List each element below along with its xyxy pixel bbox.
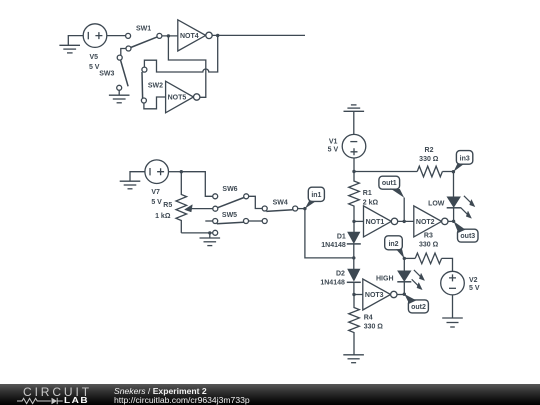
node junction V7/R5 <box>180 170 183 173</box>
svg-text:2 kΩ: 2 kΩ <box>363 199 379 206</box>
node junction R1/D1/NOT1 <box>352 220 355 223</box>
svg-text:SW5: SW5 <box>222 212 237 219</box>
voltage source V5 <box>83 24 107 48</box>
wire NOT4 output down to SW2 (with hop) <box>144 36 217 73</box>
resistor R1 <box>349 172 379 222</box>
resistor R4 <box>349 295 384 355</box>
svg-text:D2: D2 <box>336 270 345 277</box>
wire V1 to R1/R2 node <box>353 158 355 172</box>
svg-text:1N4148: 1N4148 <box>321 242 346 249</box>
LED D_LOW <box>428 197 461 221</box>
wire SW4 common to node in1 <box>298 208 305 210</box>
label V5 value <box>89 54 100 71</box>
ground GND_V1 (inverted, above V1) <box>344 105 365 134</box>
flag in3 <box>454 151 473 172</box>
wire R5 bottom to ground node <box>181 232 212 234</box>
wire SW6 common to SW4 upper throw <box>249 196 263 208</box>
wire V5 to SW1 <box>107 35 126 37</box>
svg-text:V1: V1 <box>329 139 338 146</box>
svg-text:SW2: SW2 <box>148 83 163 90</box>
wire SW1 common to NOT4 input <box>162 35 178 37</box>
svg-text:330 Ω: 330 Ω <box>419 242 439 249</box>
potentiometer R5 <box>155 172 213 233</box>
svg-text:out2: out2 <box>411 304 426 311</box>
voltage source V2 <box>441 271 465 295</box>
label V1 value <box>328 139 339 154</box>
ground GND_R4 <box>343 355 364 363</box>
inverter NOT2 <box>414 206 448 237</box>
svg-text:V2: V2 <box>469 277 478 284</box>
switch SW1 <box>126 26 162 51</box>
voltage source V1 <box>342 134 366 158</box>
node junction in3 <box>452 170 455 173</box>
LED D_HIGH <box>376 271 411 294</box>
wire SW1 lower throw to SW3 <box>121 49 126 56</box>
svg-text:out1: out1 <box>382 180 397 187</box>
svg-text:SW4: SW4 <box>273 199 288 206</box>
wire NOT3 bubble to node <box>397 294 404 296</box>
svg-text:V5: V5 <box>90 54 99 61</box>
inverter NOT5 <box>166 81 200 113</box>
svg-text:in2: in2 <box>388 241 398 248</box>
wire NOT1 output node up to out1 <box>403 198 405 222</box>
node junction NOT4 output <box>216 34 219 37</box>
svg-text:NOT5: NOT5 <box>168 95 187 102</box>
node junction NOT3 output / out2 <box>403 293 406 296</box>
svg-text:in1: in1 <box>311 192 321 199</box>
svg-text:5 V: 5 V <box>469 285 480 292</box>
wire SW3 to ground <box>118 90 120 95</box>
svg-text:R1: R1 <box>363 190 372 197</box>
flag out3 <box>454 221 478 242</box>
wire SW5 common to SW4 lower throw <box>249 220 263 222</box>
svg-text:LOW: LOW <box>428 201 445 208</box>
wire NOT4 output to right <box>212 34 305 36</box>
svg-text:1N4148: 1N4148 <box>320 280 345 287</box>
svg-text:HIGH: HIGH <box>376 276 394 283</box>
voltage source V7 <box>145 160 169 184</box>
wire R3 to V2 <box>442 258 453 271</box>
diode D2 1N4148 <box>320 258 360 295</box>
switch SW3 <box>99 55 128 90</box>
flag out2 <box>404 294 428 313</box>
switch SW6 <box>213 186 249 211</box>
svg-text:NOT3: NOT3 <box>365 292 384 299</box>
ground GND_V2 <box>442 318 463 327</box>
svg-text:R2: R2 <box>425 147 434 154</box>
wire ground node down <box>209 233 211 238</box>
label V2 value <box>469 277 480 292</box>
wire in3 node down to LED LOW <box>453 172 455 197</box>
wire V2 to ground <box>452 295 454 318</box>
ground GND_R5 <box>200 238 221 246</box>
ground GND_SW3 <box>109 95 130 103</box>
svg-text:NOT2: NOT2 <box>416 219 435 226</box>
flag in2 <box>385 236 405 259</box>
wire node to NOT1 input <box>354 220 364 222</box>
ground GND_V7 <box>120 172 145 189</box>
svg-text:V7: V7 <box>151 189 160 196</box>
wire NOT1 output to NOT2 input <box>398 220 414 222</box>
svg-text:in3: in3 <box>460 155 470 162</box>
svg-text:5 V: 5 V <box>151 199 162 206</box>
wire node to NOT3 input <box>354 294 363 296</box>
wire R2 to node in3 <box>442 171 453 173</box>
switch SW2 <box>141 67 163 103</box>
node junction R5 bottom <box>208 231 211 234</box>
flag out1 <box>379 176 404 198</box>
wire NOT2 output to node out3 <box>448 220 454 222</box>
svg-text:5 V: 5 V <box>89 64 100 71</box>
svg-text:SW1: SW1 <box>136 26 151 33</box>
svg-text:R4: R4 <box>364 314 373 321</box>
ground GND_V5 <box>59 36 83 53</box>
svg-text:1 kΩ: 1 kΩ <box>155 213 171 220</box>
svg-text:R3: R3 <box>424 233 433 240</box>
svg-text:D1: D1 <box>337 234 346 241</box>
wire in2 node to R3 <box>404 257 415 259</box>
svg-text:out3: out3 <box>460 233 475 240</box>
node junction D2/NOT3/R4 <box>352 293 355 296</box>
wire SW2 bottom to NOT5 input <box>144 97 166 109</box>
node junction in1 <box>303 207 306 210</box>
svg-text:NOT1: NOT1 <box>366 219 385 226</box>
node junction out3 <box>452 220 455 223</box>
svg-text:NOT4: NOT4 <box>180 33 199 40</box>
flag in1 <box>305 187 325 208</box>
svg-text:R5: R5 <box>163 202 172 209</box>
label V7 value <box>151 189 162 206</box>
LED LOW arrows <box>461 196 475 219</box>
node junction SW1/NOT4 <box>167 34 170 37</box>
switch SW4 <box>262 199 298 223</box>
svg-text:SW3: SW3 <box>99 71 114 78</box>
inverter NOT4 <box>178 20 212 51</box>
wire in2 node down to LED HIGH <box>403 258 405 271</box>
wire in1 node down to D1/D2 junction <box>305 209 354 258</box>
LED HIGH arrows <box>412 270 425 290</box>
node junction in2 <box>403 257 406 260</box>
svg-text:330 Ω: 330 Ω <box>364 324 384 331</box>
switch SW5 <box>205 212 248 235</box>
node junction V1 bottom <box>352 170 355 173</box>
wire V7 to R5 top node <box>169 171 182 173</box>
wire R5 node to SW6 upper throw <box>181 172 212 197</box>
wire NOT5 output up to NOT4 input node <box>168 36 205 97</box>
resistor R2 <box>417 147 442 177</box>
svg-text:5 V: 5 V <box>328 146 339 153</box>
logo resistor-diode art <box>17 398 63 404</box>
inverter NOT3 <box>363 279 397 310</box>
svg-text:330 Ω: 330 Ω <box>419 156 439 163</box>
inverter NOT1 <box>364 206 398 237</box>
node junction NOT1 output <box>403 220 406 223</box>
node junction D1/D2/in1 wire <box>352 256 355 259</box>
resistor R3 <box>415 233 441 264</box>
wire node to R2 <box>354 171 417 173</box>
svg-text:SW6: SW6 <box>222 186 237 193</box>
diode D1 1N4148 <box>321 221 361 258</box>
